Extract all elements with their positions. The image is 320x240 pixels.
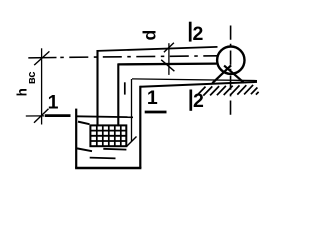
label l stroke: [124, 82, 126, 94]
section 1-1 right stroke: [145, 111, 167, 114]
strainer grid horizontals: [90, 131, 126, 141]
pipe left vertical line: [96, 50, 98, 126]
d tick top: [164, 43, 174, 53]
water level extension line left: [26, 115, 44, 117]
strainer outline: [90, 125, 126, 146]
hvs lower tick: [34, 109, 49, 123]
l dimension tick: [127, 137, 137, 147]
strainer grid verticals: [97, 125, 121, 146]
svg-text:1: 1: [147, 87, 158, 109]
water dash mid right: [103, 148, 126, 151]
suction axis centerline dash-dot: [60, 56, 217, 58]
d dimension line: [168, 43, 170, 75]
pipe right vertical line: [117, 63, 119, 126]
pump vertical centerline: [230, 26, 232, 118]
tank bottom: [75, 167, 141, 170]
svg-text:2: 2: [193, 90, 204, 112]
water dash upper left: [78, 122, 90, 125]
section 1-1 left stroke: [45, 114, 71, 117]
water level line: [76, 115, 133, 118]
svg-text:1: 1: [48, 92, 59, 114]
l dimension line: [131, 79, 133, 142]
ground hatching: [197, 85, 259, 96]
hvs dimension line: [41, 48, 43, 124]
svg-text:d: d: [140, 30, 160, 41]
pump circle: [217, 47, 244, 74]
suction axis centerline solid start: [28, 57, 56, 59]
pump support triangle right leg: [224, 66, 244, 83]
ground upper thin line: [132, 79, 257, 81]
section 2-2 lower stroke: [189, 90, 192, 111]
pipe top line: [98, 47, 218, 51]
ground lower thick line: [140, 82, 257, 87]
tank right wall: [139, 86, 141, 168]
tank left wall: [75, 109, 77, 168]
water dash mid left: [77, 148, 92, 151]
svg-text:2: 2: [192, 23, 203, 45]
water dash lower: [90, 157, 116, 160]
section 2-2 upper stroke: [189, 22, 192, 42]
hvs upper tick: [34, 51, 49, 65]
pump support triangle left leg: [212, 65, 231, 83]
pipe bottom line: [118, 62, 216, 65]
d tick bottom: [161, 60, 174, 71]
